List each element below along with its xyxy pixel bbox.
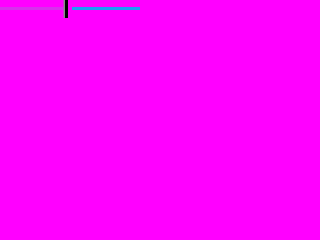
playhead bar: left antialias column xyxy=(63,0,64,18)
remaining (blue) track segment xyxy=(72,7,140,10)
playhead bar: black body xyxy=(65,0,68,18)
magenta background xyxy=(0,0,140,18)
playhead bar: gray bevel column xyxy=(64,0,65,18)
timeline scrubber strip xyxy=(0,0,140,18)
played (violet) track segment xyxy=(0,7,64,10)
